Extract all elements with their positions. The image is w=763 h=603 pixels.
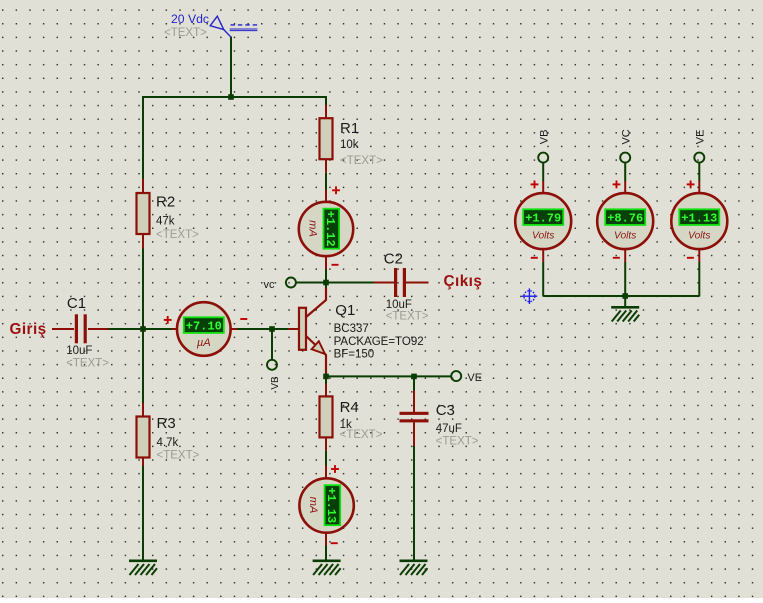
voltmeter VC display +8.76 — [605, 209, 645, 225]
wire emitter down to junction — [325, 372, 327, 377]
svg-text:VB: VB — [270, 376, 281, 390]
A1 minus sign — [332, 264, 339, 266]
ground under voltmeter bus — [611, 306, 639, 322]
svg-text:4.7k: 4.7k — [157, 437, 179, 449]
resistor R1 — [320, 118, 333, 159]
junction bus ground tap — [622, 293, 628, 299]
capacitor C3 — [400, 412, 429, 423]
resistor R3 leads — [142, 403, 144, 417]
svg-text:PACKAGE=TO92: PACKAGE=TO92 — [334, 336, 424, 348]
A2 minus sign — [331, 542, 338, 544]
wire C1 right to uA meter — [108, 328, 172, 330]
voltmeter VC body — [597, 193, 653, 249]
svg-text:µA: µA — [197, 337, 211, 349]
svg-text:<TEXT>: <TEXT> — [386, 311, 429, 323]
wire emitter node to VE terminal — [326, 375, 452, 377]
svg-text:VE: VE — [467, 372, 482, 384]
voltmeter VB display +1.79 — [523, 209, 563, 225]
svg-text:C2: C2 — [384, 250, 403, 267]
transistor Q1 collector lead — [306, 288, 327, 318]
junction supply rail / source — [228, 94, 234, 100]
voltmeter VE display +1.13 — [679, 209, 719, 225]
voltmeter VE minus sign — [687, 257, 694, 259]
uA plus sign — [164, 316, 172, 324]
svg-text:47k: 47k — [156, 215, 175, 227]
A2 plus sign — [331, 465, 339, 473]
svg-text:47uF: 47uF — [436, 423, 462, 435]
voltmeter VC bottom wire — [624, 249, 626, 263]
svg-text:C1: C1 — [67, 295, 86, 312]
svg-text:+1.79: +1.79 — [525, 211, 561, 225]
svg-text:<TEXT>: <TEXT> — [164, 27, 207, 39]
voltmeter VB top wire — [542, 162, 544, 181]
transistor Q1 base lead — [288, 328, 299, 330]
wire R3 bottom to ground — [142, 466, 144, 560]
svg-text:<TEXT>: <TEXT> — [156, 229, 199, 241]
wire A1 bottom to collector node — [325, 269, 327, 289]
capacitor C1 leads — [52, 328, 74, 330]
svg-text:R2: R2 — [156, 193, 175, 210]
capacitor C3 leads — [413, 391, 415, 413]
svg-text:mA: mA — [307, 497, 319, 514]
ammeter uA lead right — [230, 328, 238, 330]
svg-text:<TEXT>: <TEXT> — [340, 429, 383, 441]
svg-text:<TEXT>: <TEXT> — [340, 155, 383, 167]
svg-text:R3: R3 — [157, 415, 176, 432]
wire bus ground stub — [624, 296, 626, 306]
voltmeter VE top wire — [698, 162, 700, 181]
voltmeter VB body — [515, 193, 571, 249]
voltmeter VB terminal — [538, 153, 548, 163]
svg-text:10uF: 10uF — [66, 345, 92, 357]
voltmeter VC top wire — [624, 162, 626, 181]
svg-text:Q1: Q1 — [335, 302, 355, 319]
svg-text:VC: VC — [621, 129, 633, 144]
wire R4 bottom to ammeter A2 — [325, 451, 327, 466]
ground under R3 — [129, 560, 157, 576]
wire emitter node to R4 — [325, 376, 327, 383]
resistor R4 leads — [325, 384, 327, 397]
wire R1 bottom to ammeter A1 — [325, 173, 327, 190]
voltmeter VB bottom wire — [542, 249, 544, 263]
capacitor C2 leads — [374, 282, 394, 284]
svg-text:20 Vdc: 20 Vdc — [171, 12, 209, 26]
terminal VE — [451, 371, 461, 381]
wire VC terminal to collector node to C2 — [295, 282, 374, 284]
ammeter A2 body — [299, 478, 353, 532]
voltmeter VB minus sign — [531, 257, 538, 259]
uA minus sign — [240, 318, 247, 320]
capacitor C1 — [75, 314, 87, 343]
resistor R2 — [137, 193, 150, 234]
svg-text:Volts: Volts — [532, 230, 554, 241]
svg-text:Volts: Volts — [614, 230, 636, 241]
ammeter A1 body — [299, 202, 353, 256]
voltmeter VC minus sign — [613, 257, 620, 259]
voltmeter VE terminal — [694, 153, 704, 163]
transistor Q1 emitter lead — [306, 336, 327, 374]
junction C1 / R2-R3 node — [140, 326, 146, 332]
ammeter uA body — [177, 302, 231, 356]
svg-text:<TEXT>: <TEXT> — [436, 435, 479, 447]
svg-text:R4: R4 — [340, 399, 359, 416]
svg-text:10k: 10k — [340, 139, 359, 151]
ammeter A2 bottom lead — [325, 532, 327, 546]
wire from power source down — [230, 37, 232, 99]
wire left vertical R2 top — [142, 97, 144, 179]
svg-text:vc: vc — [264, 279, 276, 291]
wire top supply rail — [142, 96, 327, 98]
terminal VC — [286, 278, 296, 288]
resistor R4 — [320, 396, 333, 437]
wire C3 tap down — [413, 376, 415, 390]
ammeter A1 display +1.12 — [323, 209, 339, 249]
origin marker blue crosshair — [522, 288, 538, 304]
terminal VB — [267, 360, 277, 370]
capacitor C2 — [394, 268, 406, 297]
svg-text:+1.13: +1.13 — [324, 487, 338, 523]
svg-text:Volts: Volts — [688, 230, 710, 241]
svg-text:BF=150: BF=150 — [334, 349, 375, 361]
svg-text:Çıkış: Çıkış — [444, 273, 483, 290]
svg-text:C3: C3 — [436, 402, 455, 419]
transistor Q1 base bar — [299, 308, 306, 350]
junction collector node — [323, 280, 329, 286]
wire R2 bottom to R3 top — [142, 249, 144, 404]
svg-text:R1: R1 — [340, 120, 359, 137]
wire voltmeter ground bus — [543, 295, 699, 297]
svg-text:mA: mA — [307, 220, 319, 237]
ground under C3 — [400, 560, 428, 576]
svg-text:VE: VE — [695, 130, 707, 145]
junction C3 tap — [411, 374, 417, 380]
svg-text:Giriş: Giriş — [10, 321, 47, 338]
voltmeter VC terminal — [620, 153, 630, 163]
wire VB tap down — [271, 329, 273, 360]
ammeter A1 top lead — [325, 190, 327, 204]
voltmeter VE plus sign — [687, 181, 695, 189]
junction emitter node — [323, 374, 329, 380]
wire uA meter to base — [237, 328, 288, 330]
svg-text:<TEXT>: <TEXT> — [66, 358, 109, 370]
ammeter uA display +7.10 — [184, 317, 224, 333]
A1 plus sign — [332, 186, 340, 194]
svg-text:+1.12: +1.12 — [323, 211, 337, 247]
voltmeter VE body — [671, 193, 727, 249]
ammeter uA lead left — [172, 328, 179, 330]
svg-text:VB: VB — [539, 130, 551, 145]
junction VB tap — [269, 326, 275, 332]
wire C3 bottom to ground — [413, 446, 415, 560]
power source V1 20 Vdc symbol — [210, 16, 258, 37]
resistor R2 leads — [142, 179, 144, 193]
svg-text:+1.13: +1.13 — [681, 211, 717, 225]
voltmeter VC plus sign — [613, 181, 621, 189]
transistor Q1 emitter arrow — [312, 341, 325, 354]
ground under ammeter A2 — [313, 560, 341, 576]
ammeter A2 top lead — [325, 466, 327, 480]
svg-text:10uF: 10uF — [386, 299, 412, 311]
svg-text:<TEXT>: <TEXT> — [157, 449, 200, 461]
resistor R1 leads — [325, 105, 327, 118]
svg-text:+7.10: +7.10 — [186, 319, 222, 333]
resistor R3 — [137, 417, 150, 458]
ammeter A1 bottom lead — [325, 256, 327, 270]
ammeter A2 display +1.13 — [324, 485, 340, 525]
wire R1 top stub green — [325, 97, 327, 105]
voltmeter VB plus sign — [531, 181, 539, 189]
svg-text:BC337: BC337 — [334, 323, 369, 335]
wire A2 bottom to ground — [325, 546, 327, 561]
svg-text:+8.76: +8.76 — [607, 211, 643, 225]
voltmeter VE bottom wire — [698, 249, 700, 263]
